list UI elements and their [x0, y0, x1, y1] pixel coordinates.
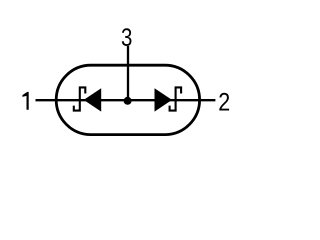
thyristor arrowhead left (points to pin 1): [84, 88, 102, 111]
pin label 1: [22, 92, 28, 110]
svg-text:3: 3: [121, 23, 132, 51]
node junction dot (center node): [124, 97, 132, 105]
wire pin 1 to pin 2 (horizontal lead through device): [36, 99, 216, 101]
wire pin 3 (vertical lead to center junction): [127, 46, 129, 100]
package outline (stadium body of protector U1): [56, 65, 199, 134]
breakover (switching) glyph left: [74, 87, 86, 110]
svg-text:2: 2: [218, 88, 230, 116]
breakover (switching) glyph right: [170, 87, 182, 110]
thyristor arrowhead right (points to pin 2): [155, 88, 173, 111]
